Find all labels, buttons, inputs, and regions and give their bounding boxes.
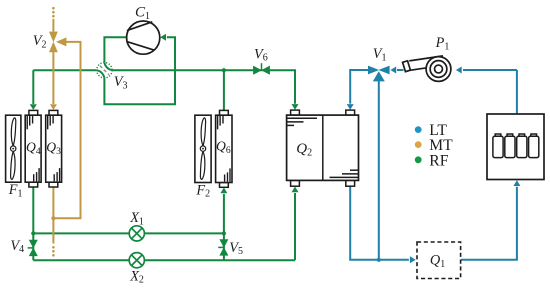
svg-text:RF: RF bbox=[429, 152, 448, 169]
heat load Q1 (dashed box) bbox=[417, 242, 461, 279]
arrow into V1 right bbox=[390, 67, 396, 74]
valve V4 (RF) bbox=[28, 240, 38, 256]
heat exchanger Q6 bbox=[216, 110, 232, 187]
heat exchanger Q3 bbox=[46, 110, 62, 187]
reversing valve V3 bbox=[97, 62, 112, 77]
arrow into Q4 top bbox=[30, 104, 37, 110]
junction dot RF at V5 branch bbox=[222, 231, 226, 235]
wire LT pump inlet from case top bbox=[463, 69, 517, 71]
wire LT Q1 outlet to case bottom bbox=[461, 187, 517, 260]
wire RF compressor discharge loop right bbox=[104, 37, 175, 104]
wire RF through V4 to lower header bbox=[32, 233, 34, 260]
wire RF main to Q6 top bbox=[223, 70, 225, 110]
expansion valve X2 bbox=[129, 253, 144, 268]
arrow into Q3 top bbox=[50, 104, 57, 110]
heat exchanger Q4 bbox=[25, 110, 41, 187]
legend RF dot bbox=[415, 156, 422, 163]
wire RF compressor suction loop left bbox=[104, 37, 126, 62]
pump P1 bbox=[403, 56, 451, 81]
wire LT V1 bottom drop bbox=[378, 81, 380, 260]
arrow into Q2 bottom-left bbox=[292, 187, 299, 193]
wire MT return to V2 side bbox=[53, 42, 80, 218]
cascade heat exchanger Q2 bbox=[287, 110, 359, 186]
arrow into Q2 top-left bbox=[292, 104, 299, 110]
valve V5 (RF) bbox=[218, 239, 228, 255]
wire RF main horizontal (V3 to Q2 top-left drop) bbox=[112, 70, 295, 104]
valve V6 (RF) bbox=[253, 63, 270, 75]
arrow into Q2 top-right bbox=[347, 104, 354, 110]
arrow into Q1 bbox=[410, 256, 416, 263]
wire MT dotted tail bbox=[52, 246, 55, 257]
junction dot MT bbox=[51, 216, 55, 220]
valve V1 (3-way LT) bbox=[368, 66, 390, 82]
wire RF lower header bbox=[33, 259, 295, 261]
wire MT V2 to Q3 top bbox=[52, 52, 54, 104]
legend MT dot bbox=[415, 141, 422, 148]
wire RF riser to Q2 bottom-left bbox=[294, 193, 296, 260]
wire LT pump outlet to V1 bbox=[397, 69, 404, 71]
expansion valve X1 bbox=[129, 226, 144, 241]
wire LT case top riser bbox=[516, 70, 518, 114]
junction dot RF at Q6 riser on main bbox=[222, 68, 226, 72]
arrow into C1 bbox=[160, 34, 166, 41]
wire RF main horizontal (left part to V3) bbox=[33, 69, 97, 71]
compressor C1 bbox=[126, 21, 159, 54]
wire MT Q3 bottom down bbox=[52, 187, 54, 244]
wire RF through V5 to lower header bbox=[223, 233, 225, 260]
wire MT into V2 top bbox=[52, 19, 54, 32]
wire LT Q2 bottom-right to Q1 bbox=[350, 186, 409, 260]
arrow into case bottom bbox=[513, 180, 520, 186]
legend LT dot bbox=[415, 126, 422, 133]
arrow into Q6 bottom bbox=[220, 188, 227, 194]
wire RF Q4 bottom to junction bbox=[32, 187, 34, 234]
junction dot LT bbox=[377, 258, 381, 262]
wire MT dotted stub above V2 bbox=[52, 7, 55, 18]
wire RF left riser to Q4 bbox=[32, 70, 34, 104]
fan F1 bbox=[6, 115, 21, 182]
fan F2 bbox=[195, 115, 211, 182]
junction dot RF at V4 branch bbox=[31, 231, 35, 235]
wire RF upper header (X1 line) bbox=[33, 232, 224, 234]
wire LT V1 to Q2 top-right bbox=[350, 70, 368, 104]
arrow into pump inlet bbox=[456, 67, 462, 74]
display case bbox=[487, 114, 544, 180]
valve V2 (3-way MT) bbox=[49, 32, 66, 53]
wire RF Q6 bottom to junction bbox=[223, 194, 225, 233]
